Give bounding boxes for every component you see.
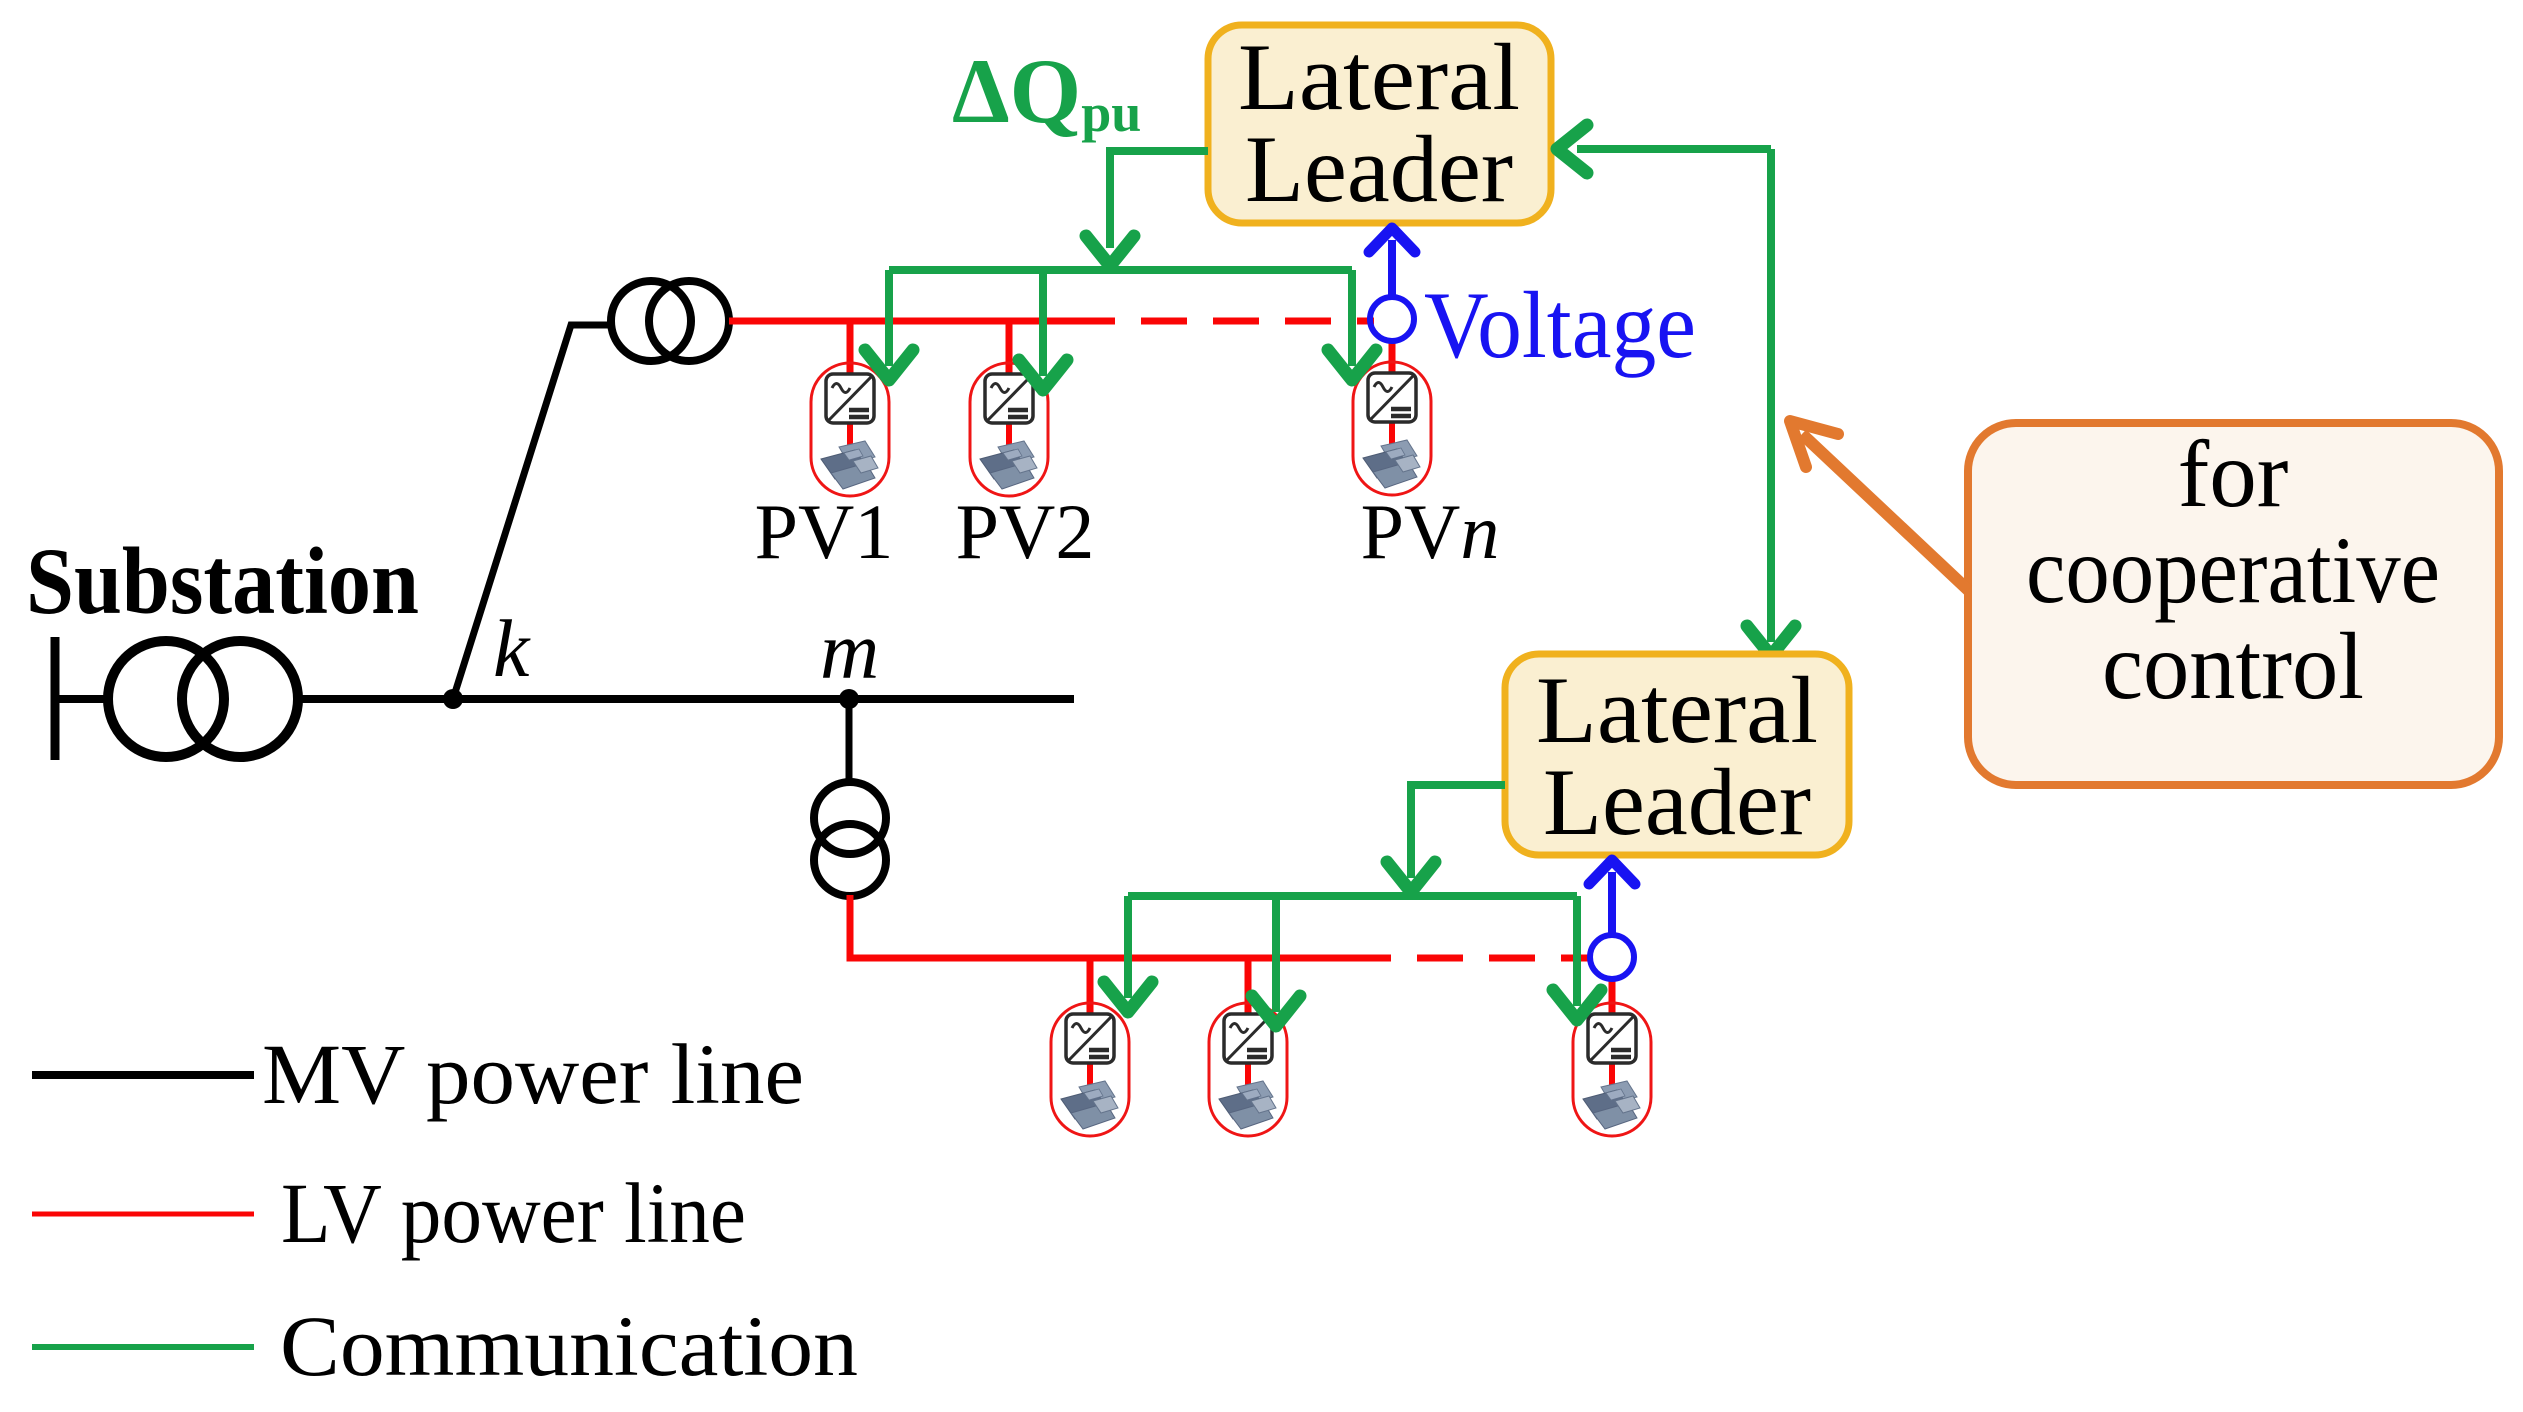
svg-text:Lateral: Lateral — [1238, 24, 1520, 130]
wire LV lower dashed — [1345, 955, 1592, 962]
node voltage sensor 1 — [1370, 297, 1414, 341]
wire MV power line (node k to node m) — [297, 695, 1074, 703]
svg-text:control: control — [2102, 613, 2364, 719]
svg-text:PV2: PV2 — [956, 488, 1095, 575]
wire comm drop PV2 — [1039, 270, 1047, 376]
svg-text:PVn: PVn — [1361, 488, 1500, 575]
wire comm long vertical — [1767, 149, 1775, 642]
arrow comm into bus1 — [1086, 236, 1134, 266]
wire LV stub PVa — [1087, 958, 1094, 1020]
wire LV bus upper dashed — [1069, 318, 1374, 325]
wire comm drop PV1 — [885, 270, 893, 366]
transformer T2 (upper feeder) — [611, 281, 729, 361]
wire comm right link to box1 — [1577, 145, 1771, 153]
PV unit PVb — [1209, 1003, 1287, 1136]
arrow orange callout — [1802, 434, 1968, 590]
svg-text:k: k — [493, 603, 531, 694]
box Lateral Leader 2 — [1505, 654, 1849, 855]
transformer T3 (lower feeder) — [814, 782, 886, 896]
svg-text:Substation: Substation — [26, 528, 419, 634]
wire comm box2 to bus2 — [1411, 785, 1505, 878]
svg-text:Voltage: Voltage — [1424, 272, 1696, 378]
wire comm drop PVb — [1272, 896, 1280, 1012]
legend MV power line sample — [32, 1071, 254, 1079]
PV unit PVa — [1051, 1003, 1129, 1136]
PV unit PV2 — [970, 363, 1048, 496]
arrow voltage to box1 — [1388, 240, 1396, 296]
arrow comm into PVa — [1104, 982, 1152, 1012]
transformer T1 (substation) — [108, 641, 298, 757]
PV unit PVn — [1353, 362, 1431, 495]
wire LV lower from transformer — [850, 895, 1345, 958]
arrow comm into PVc — [1553, 990, 1601, 1020]
svg-text:Communication: Communication — [280, 1298, 858, 1394]
PV unit PV1 — [811, 363, 889, 496]
arrow comm into PVb — [1252, 996, 1300, 1026]
svg-text:for: for — [2178, 421, 2289, 527]
node voltage sensor 2 — [1590, 935, 1634, 979]
box Lateral Leader 1 — [1208, 25, 1551, 223]
wire LV stub PVb — [1245, 958, 1252, 1020]
legend Communication sample — [32, 1344, 254, 1350]
arrow comm into PV1 — [865, 350, 913, 380]
wire busbar to transformer T1 — [51, 695, 110, 703]
wire LV bus upper solid — [729, 318, 1069, 325]
svg-text:m: m — [820, 605, 879, 696]
svg-text:Leader: Leader — [1245, 116, 1513, 222]
svg-text:MV power line: MV power line — [262, 1026, 804, 1122]
wire LV stub PV2 — [1006, 321, 1013, 380]
node m junction dot — [839, 689, 859, 709]
wire LV stub PV1 — [847, 321, 854, 380]
arrow comm into box2 top — [1747, 626, 1795, 656]
legend LV power line sample — [32, 1212, 254, 1217]
substation busbar — [51, 637, 60, 760]
arrow voltage to box2 — [1608, 872, 1616, 934]
svg-text:Lateral: Lateral — [1536, 657, 1818, 763]
node k junction dot — [443, 689, 463, 709]
wire LV stub PVc — [1609, 978, 1616, 1020]
wire comm drop PVn — [1348, 270, 1356, 366]
svg-text:cooperative: cooperative — [2026, 517, 2440, 623]
arrow comm into bus2 — [1387, 862, 1435, 892]
box for cooperative control — [1968, 423, 2499, 785]
wire MV drop from node m — [846, 699, 853, 784]
svg-text:PV1: PV1 — [755, 488, 894, 575]
arrow comm into box1 right — [1557, 125, 1587, 173]
PV unit PVc — [1573, 1003, 1651, 1136]
wire comm drop PVa — [1124, 896, 1132, 998]
wire LV stub PVn — [1389, 340, 1396, 380]
arrow comm into PVn — [1328, 350, 1376, 380]
arrow comm into PV2 — [1019, 360, 1067, 390]
wire comm bus1 — [889, 266, 1352, 274]
svg-text:LV power line: LV power line — [281, 1165, 746, 1261]
svg-text:Leader: Leader — [1543, 749, 1811, 855]
wire comm drop PVc — [1573, 896, 1581, 1006]
wire MV branch slant to upper transformer — [453, 325, 613, 699]
wire comm box1 to bus1 — [1110, 151, 1208, 248]
wire comm bus2 — [1128, 892, 1577, 900]
